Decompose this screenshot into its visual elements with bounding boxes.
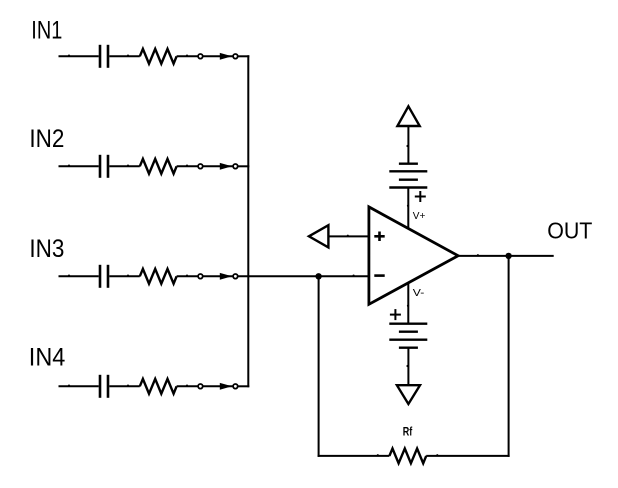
op-amp plus input marking (374, 232, 384, 242)
arrow row3 (220, 273, 232, 280)
wire row3 summing node to op-amp inverting input (238, 275, 369, 277)
power connector triangle up (397, 106, 419, 126)
wire with arrow row1 (203, 55, 233, 57)
svg-text:IN1: IN1 (31, 16, 62, 44)
pin dots row2 (68, 165, 188, 167)
battery B1 plus sign (415, 191, 426, 202)
wire connector to noninverting input (328, 235, 369, 237)
pin dot output wire (477, 254, 479, 256)
wire triangle to battery B1 (407, 126, 409, 164)
svg-text:V-: V- (413, 287, 425, 299)
connector arrow at op-amp noninverting input (309, 225, 329, 247)
wire battery B2 to triangle (407, 348, 409, 386)
pin circle row3 a (198, 274, 203, 279)
wire with arrow row2 (203, 165, 233, 167)
arrow row2 (220, 163, 232, 170)
wire R1 to connector (177, 55, 199, 57)
wire R2 to connector (177, 165, 199, 167)
junction summing node (315, 273, 321, 279)
capacitor C4 (100, 375, 108, 398)
wire R4 to connector (177, 385, 199, 387)
pin dots row4 (68, 385, 188, 387)
arrow row1 (220, 53, 232, 60)
wire C2 to R2 (109, 165, 140, 167)
pin dot inverting wire (353, 275, 355, 277)
junction output node (505, 253, 511, 259)
svg-text:OUT: OUT (547, 218, 592, 244)
wire op-amp V- pin to battery B2 (407, 284, 409, 324)
resistor R1 (140, 49, 177, 64)
power connector triangle down (397, 385, 420, 404)
pin dot V+ wire (407, 205, 409, 207)
battery B2 plus sign (390, 309, 401, 320)
op-amp U1 (369, 207, 458, 304)
wire feedback right vertical (508, 256, 510, 457)
svg-text:IN3: IN3 (29, 235, 64, 263)
wire C4 to R4 (109, 385, 140, 387)
battery B2 (V- supply) (389, 324, 427, 348)
wire feedback bottom left (318, 455, 390, 457)
wire row4 to bus (238, 385, 250, 387)
wire with arrow row4 (203, 385, 233, 387)
resistor Rf (389, 449, 426, 464)
svg-text:IN2: IN2 (29, 125, 64, 153)
svg-text:Rf: Rf (403, 425, 413, 439)
wire row1 to bus (238, 55, 250, 57)
pin circle row2 a (198, 164, 203, 169)
capacitor C3 (100, 265, 108, 288)
wire IN4 to C4 (59, 385, 99, 387)
pin dot battery B1 top (406, 145, 408, 147)
svg-text:V+: V+ (413, 210, 426, 222)
pin circle row4 b (233, 384, 238, 389)
wire feedback left vertical (318, 276, 320, 457)
pin circle row4 a (198, 384, 203, 389)
wire row2 to bus (238, 165, 250, 167)
resistor R4 (140, 379, 177, 394)
arrow row4 (220, 383, 232, 390)
op-amp minus input marking (374, 274, 384, 277)
wire IN3 to C3 (59, 275, 99, 277)
capacitor C2 (100, 155, 108, 178)
pin dot battery B2 bottom (406, 365, 408, 367)
wire C1 to R1 (109, 55, 140, 57)
pin dot feedback left (377, 454, 379, 456)
wire summing bus vertical (247, 55, 249, 387)
resistor R3 (140, 269, 177, 284)
battery B1 (V+ supply) (389, 164, 427, 188)
pin circle row3 b (233, 274, 238, 279)
pin circle row1 a (198, 54, 203, 59)
wire op-amp output (458, 255, 554, 257)
wire feedback bottom right (426, 455, 509, 457)
wire C3 to R3 (109, 275, 140, 277)
pin circle row1 b (233, 54, 238, 59)
pin dots row3 (68, 275, 188, 277)
resistor R2 (140, 159, 177, 174)
wire battery B1 to op-amp V+ pin (407, 188, 409, 228)
pin dot V- wire (407, 305, 409, 307)
pin circle row2 b (233, 164, 238, 169)
wire IN1 to C1 (59, 55, 99, 57)
pin dot feedback right (436, 454, 438, 456)
wire R3 to connector (177, 275, 199, 277)
wire with arrow row3 (203, 275, 233, 277)
svg-text:IN4: IN4 (29, 343, 66, 371)
wire IN2 to C2 (59, 165, 99, 167)
capacitor C1 (100, 45, 108, 68)
pin dot noninverting wire (347, 235, 349, 237)
pin dots row1 (68, 55, 188, 57)
